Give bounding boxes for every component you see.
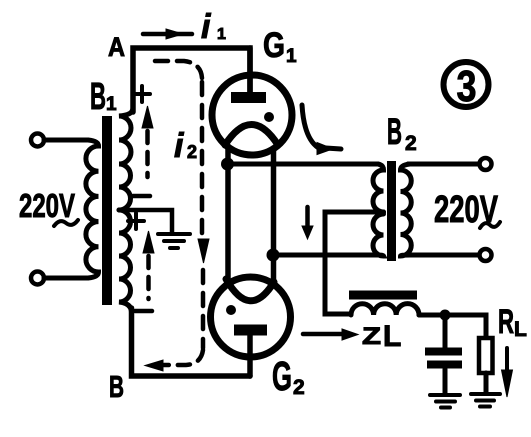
svg-text:R: R (498, 303, 514, 341)
wire A top: from B1 secondary top up, right, down to G1 anode (133, 48, 250, 112)
wire to B1 primary top (44, 138, 88, 143)
B2 secondary winding (401, 164, 412, 256)
curved arrow at G1 output (302, 105, 341, 149)
svg-text:2: 2 (187, 142, 197, 162)
B2 primary lower section (373, 214, 383, 256)
B1 secondary winding lower (119, 210, 132, 312)
svg-text:B: B (90, 76, 106, 118)
wire junction to B2 primary top (228, 162, 379, 167)
choke ZL core bar (349, 291, 417, 300)
output junction dot (440, 310, 451, 321)
i2 bottom arrowhead (145, 360, 163, 371)
wire B1 secondary bottom to node B (132, 308, 251, 376)
junction dot left lead (221, 158, 234, 171)
junction dot right lead (267, 249, 280, 262)
svg-text:i: i (201, 8, 212, 46)
G1 cathode arc (225, 125, 278, 146)
ZL label arrow (303, 332, 342, 337)
dashed current path i2 top segment (155, 61, 202, 78)
minus mark above tap (133, 194, 150, 199)
svg-text:i: i (174, 127, 185, 165)
G2 anode lead (247, 335, 253, 376)
B1 primary winding (86, 140, 99, 278)
resistor lead bottom (484, 373, 489, 392)
B1 secondary winding upper (119, 108, 133, 210)
capacitor lead bottom (443, 369, 448, 393)
svg-text:1: 1 (217, 26, 226, 43)
B1 center tap wire (122, 210, 172, 232)
G1 anode lead (247, 48, 253, 93)
svg-text:B: B (387, 111, 402, 152)
svg-text:1: 1 (106, 94, 117, 115)
dashed up arrow bottom (146, 256, 151, 299)
svg-text:2: 2 (405, 132, 417, 155)
B2 center tap wire down to choke (325, 212, 384, 314)
wire junction to B2 primary bottom (273, 253, 378, 258)
capacitor lead top (443, 315, 448, 348)
svg-text:220V: 220V (19, 187, 75, 224)
svg-text:G: G (272, 353, 292, 399)
current arrow i1 (143, 32, 192, 37)
svg-text:L: L (514, 318, 527, 341)
ground under capacitor (430, 395, 460, 408)
current down arrow at RL (505, 348, 509, 371)
capacitor C plates (425, 348, 462, 356)
wire B2 secondary top to terminal (408, 162, 479, 167)
B2 primary upper section (373, 164, 383, 212)
svg-text:3: 3 (457, 62, 477, 111)
circled 3 (444, 62, 489, 107)
dashed current path i2 lower vertical (201, 270, 206, 348)
svg-text:B: B (109, 369, 124, 404)
svg-text:A: A (108, 32, 125, 62)
terminal bottom-left (31, 272, 44, 285)
terminal top-left (31, 134, 44, 147)
G1 grid dot (264, 112, 274, 122)
wire choke to output node (419, 315, 486, 338)
tube G1 (212, 75, 292, 155)
G2 anode bar (234, 325, 267, 336)
dashed up arrow top (145, 131, 150, 177)
G1 anode bar (231, 92, 266, 103)
B2 core (387, 161, 396, 261)
terminal bottom-right (480, 249, 492, 261)
ground under resistor (471, 394, 500, 407)
dashed current path i2 bottom curve (164, 350, 203, 365)
svg-text:Z: Z (362, 323, 381, 350)
current down arrow at tap (305, 207, 310, 227)
svg-text:G: G (263, 26, 285, 65)
G1 right filament lead down to G2 (271, 148, 277, 284)
G1 left filament lead down to G2 (225, 146, 231, 282)
svg-text:1: 1 (286, 46, 297, 67)
ground at center tap (158, 234, 190, 248)
plus mark below tap (128, 213, 144, 229)
dashed current path i2 vertical (200, 82, 205, 238)
tube G2 (211, 277, 291, 357)
minus mark bottom (135, 309, 152, 314)
G2 grid dot (226, 305, 236, 315)
choke ZL winding (351, 304, 419, 315)
plus mark top (134, 86, 150, 102)
B1 core (102, 116, 112, 305)
wire B2 secondary bottom to terminal (408, 253, 479, 258)
i2 mid arrowhead (198, 239, 209, 263)
resistor RL body (479, 338, 493, 373)
svg-text:L: L (383, 320, 401, 353)
terminal top-right (480, 158, 492, 170)
wire to B1 primary bottom (44, 276, 88, 281)
G2 cathode arc (226, 279, 274, 301)
svg-text:2: 2 (293, 376, 305, 399)
